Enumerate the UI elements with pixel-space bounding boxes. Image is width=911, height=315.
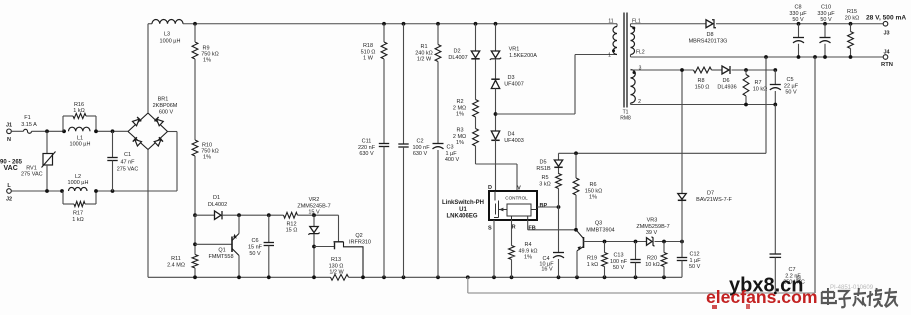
- svg-text:50 V: 50 V: [792, 17, 804, 23]
- svg-text:50 V: 50 V: [249, 251, 261, 257]
- svg-text:275 VAC: 275 VAC: [117, 167, 139, 173]
- svg-text:D6: D6: [722, 78, 729, 84]
- svg-text:28 V, 500 mA: 28 V, 500 mA: [866, 15, 906, 22]
- svg-text:RM8: RM8: [620, 116, 631, 122]
- svg-text:Q1: Q1: [218, 248, 225, 254]
- svg-text:47 nF: 47 nF: [120, 160, 135, 166]
- svg-text:1 kΩ: 1 kΩ: [73, 108, 84, 114]
- svg-text:MBRS4201T3G: MBRS4201T3G: [689, 38, 728, 44]
- svg-text:400 V: 400 V: [445, 157, 460, 163]
- svg-text:J2: J2: [6, 197, 12, 203]
- svg-text:Q2: Q2: [355, 233, 362, 239]
- svg-text:J3: J3: [883, 31, 889, 37]
- svg-text:15 Ω: 15 Ω: [286, 228, 298, 234]
- svg-text:R6: R6: [589, 182, 596, 188]
- svg-text:1: 1: [608, 53, 611, 59]
- svg-text:630 V: 630 V: [359, 151, 374, 157]
- svg-text:1 µF: 1 µF: [690, 258, 702, 264]
- svg-text:R11: R11: [171, 256, 181, 262]
- svg-text:100 nF: 100 nF: [610, 259, 628, 265]
- svg-text:100 nF: 100 nF: [412, 145, 430, 151]
- svg-text:VAC: VAC: [4, 165, 18, 172]
- svg-text:2 MΩ: 2 MΩ: [453, 105, 466, 111]
- svg-text:LinkSwitch-PH: LinkSwitch-PH: [442, 200, 484, 206]
- svg-text:BP: BP: [540, 203, 548, 209]
- svg-text:UF4007: UF4007: [504, 82, 524, 88]
- svg-text:R: R: [512, 225, 516, 231]
- svg-text:130 Ω: 130 Ω: [329, 263, 344, 269]
- svg-text:240 kΩ: 240 kΩ: [415, 50, 433, 56]
- svg-text:N: N: [7, 137, 11, 143]
- svg-text:U1: U1: [459, 207, 467, 213]
- svg-text:16 V: 16 V: [541, 267, 553, 273]
- svg-text:D: D: [488, 185, 492, 191]
- svg-text:3.15 A: 3.15 A: [21, 122, 37, 128]
- svg-text:Q3: Q3: [595, 221, 602, 227]
- svg-text:1000 µH: 1000 µH: [68, 180, 89, 186]
- svg-text:150 kΩ: 150 kΩ: [585, 188, 603, 194]
- svg-text:50 V: 50 V: [613, 265, 625, 271]
- svg-text:330 µF: 330 µF: [817, 11, 835, 17]
- svg-text:C3: C3: [446, 145, 453, 151]
- svg-text:D7: D7: [707, 191, 714, 197]
- svg-text:RTN: RTN: [881, 62, 893, 68]
- svg-text:11: 11: [608, 19, 613, 25]
- svg-text:275 VAC: 275 VAC: [21, 172, 43, 178]
- svg-text:VR3: VR3: [647, 218, 658, 224]
- svg-text:BAV21WS-7-F: BAV21WS-7-F: [696, 197, 732, 203]
- svg-text:DL4007: DL4007: [448, 55, 467, 61]
- svg-text:3: 3: [639, 66, 642, 72]
- svg-text:C6: C6: [251, 238, 258, 244]
- svg-text:D8: D8: [706, 32, 713, 38]
- svg-text:S: S: [488, 225, 492, 231]
- svg-text:PI-4851-010609: PI-4851-010609: [830, 285, 874, 291]
- svg-text:1/2 W: 1/2 W: [329, 270, 344, 276]
- svg-text:MMBT3904: MMBT3904: [586, 228, 614, 234]
- svg-text:VR2: VR2: [309, 197, 320, 203]
- svg-text:50 V: 50 V: [820, 17, 832, 23]
- svg-text:C13: C13: [613, 253, 623, 259]
- svg-text:L3: L3: [164, 32, 170, 38]
- svg-text:RS1B: RS1B: [536, 166, 551, 172]
- svg-text:1%: 1%: [456, 112, 464, 118]
- svg-text:39 V: 39 V: [646, 230, 658, 236]
- svg-text:DL4002: DL4002: [208, 202, 227, 208]
- svg-text:elecfans.com: elecfans.com: [706, 287, 817, 307]
- svg-text:R15: R15: [847, 9, 857, 15]
- svg-text:LNK406EG: LNK406EG: [446, 213, 477, 219]
- svg-text:J1: J1: [6, 123, 12, 129]
- svg-text:600 V: 600 V: [159, 110, 174, 116]
- svg-text:510 Ω: 510 Ω: [361, 49, 376, 55]
- svg-text:1%: 1%: [203, 58, 211, 64]
- svg-text:1%: 1%: [203, 155, 211, 161]
- svg-text:3 kΩ: 3 kΩ: [539, 181, 550, 187]
- svg-text:1%: 1%: [524, 255, 532, 261]
- svg-text:R20: R20: [647, 256, 657, 262]
- svg-text:D5: D5: [539, 160, 546, 166]
- svg-text:ZMM5245B-7: ZMM5245B-7: [297, 203, 330, 209]
- svg-text:R5: R5: [541, 175, 548, 181]
- svg-text:220 nF: 220 nF: [358, 145, 376, 151]
- svg-text:R8: R8: [697, 78, 704, 84]
- svg-text:D1: D1: [213, 195, 220, 201]
- svg-text:C1: C1: [124, 152, 131, 158]
- svg-text:1 W: 1 W: [363, 56, 374, 62]
- svg-text:50 V: 50 V: [689, 264, 701, 270]
- svg-text:DL4936: DL4936: [717, 84, 736, 90]
- svg-text:V: V: [517, 186, 521, 192]
- svg-text:VR1: VR1: [509, 47, 520, 53]
- svg-text:1000 µH: 1000 µH: [70, 142, 91, 148]
- svg-text:1 kΩ: 1 kΩ: [72, 217, 83, 223]
- svg-text:C5: C5: [786, 77, 793, 83]
- svg-text:330 µF: 330 µF: [789, 11, 807, 17]
- svg-text:D2: D2: [453, 49, 460, 55]
- svg-text:ZMM5259B-7: ZMM5259B-7: [636, 224, 669, 230]
- svg-text:R7: R7: [754, 80, 761, 86]
- svg-text:10 kΩ: 10 kΩ: [645, 262, 660, 268]
- svg-text:RV1: RV1: [26, 165, 37, 171]
- svg-text:1%: 1%: [456, 140, 464, 146]
- svg-text:C8: C8: [794, 5, 801, 11]
- svg-text:15 V: 15 V: [308, 210, 320, 216]
- svg-text:C2: C2: [416, 139, 423, 145]
- svg-text:1 µF: 1 µF: [445, 151, 457, 157]
- svg-text:R17: R17: [73, 210, 83, 216]
- svg-text:FB: FB: [528, 225, 535, 231]
- svg-text:2.4 MΩ: 2.4 MΩ: [167, 263, 185, 269]
- svg-text:R18: R18: [363, 43, 373, 49]
- svg-text:L1: L1: [77, 136, 83, 142]
- svg-text:C11: C11: [362, 139, 372, 145]
- svg-text:R19: R19: [587, 256, 597, 262]
- svg-text:2 MΩ: 2 MΩ: [453, 134, 466, 140]
- svg-text:2KBP06M: 2KBP06M: [153, 103, 178, 109]
- svg-text:FL2: FL2: [636, 50, 645, 56]
- svg-text:1/2 W: 1/2 W: [417, 57, 432, 63]
- svg-text:CONTROL: CONTROL: [505, 196, 528, 201]
- svg-text:BR1: BR1: [158, 97, 169, 103]
- svg-text:UF4003: UF4003: [504, 138, 524, 144]
- svg-text:C10: C10: [821, 5, 831, 11]
- svg-text:R12: R12: [286, 221, 296, 227]
- svg-text:1%: 1%: [589, 195, 597, 201]
- svg-text:R13: R13: [331, 257, 341, 263]
- svg-text:F1: F1: [24, 115, 30, 121]
- svg-text:J4: J4: [883, 50, 890, 56]
- svg-text:D3: D3: [507, 75, 514, 81]
- svg-text:R2: R2: [456, 99, 463, 105]
- svg-text:1000 µH: 1000 µH: [160, 39, 181, 45]
- svg-text:D4: D4: [507, 132, 514, 138]
- svg-text:1.5KE200A: 1.5KE200A: [509, 53, 537, 59]
- svg-text:C12: C12: [690, 252, 700, 258]
- svg-text:FMMT558: FMMT558: [208, 254, 233, 260]
- svg-text:1 kΩ: 1 kΩ: [587, 262, 598, 268]
- svg-text:50 V: 50 V: [785, 90, 797, 96]
- svg-text:22 µF: 22 µF: [784, 83, 799, 89]
- svg-text:10 kΩ: 10 kΩ: [753, 86, 768, 92]
- svg-text:IRFR310: IRFR310: [349, 239, 371, 245]
- svg-text:R1: R1: [420, 44, 427, 50]
- svg-text:20 kΩ: 20 kΩ: [845, 15, 860, 21]
- svg-text:15 nF: 15 nF: [248, 245, 263, 251]
- svg-text:®: ®: [796, 275, 802, 283]
- svg-text:630 V: 630 V: [413, 151, 428, 157]
- svg-text:R4: R4: [524, 242, 531, 248]
- svg-text:R3: R3: [456, 128, 463, 134]
- svg-text:C7: C7: [788, 267, 795, 273]
- svg-text:150 Ω: 150 Ω: [695, 84, 710, 90]
- svg-text:49.9 kΩ: 49.9 kΩ: [518, 248, 537, 254]
